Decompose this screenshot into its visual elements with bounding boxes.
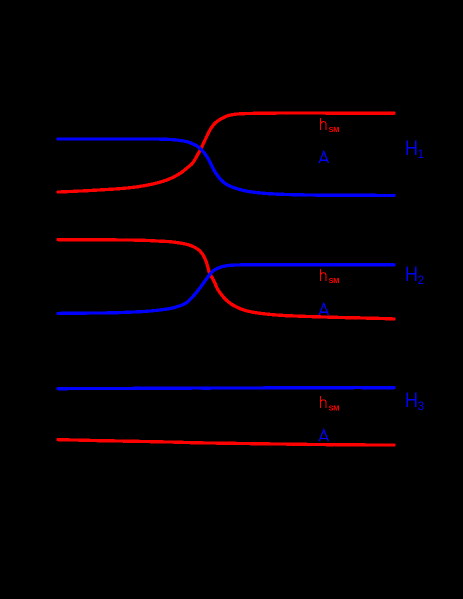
- svg-text:2: 2: [418, 275, 424, 287]
- svg-text:SM: SM: [329, 403, 340, 412]
- svg-text:1: 1: [418, 149, 424, 161]
- svg-text:3: 3: [418, 401, 424, 413]
- svg-text:SM: SM: [329, 276, 340, 285]
- svg-text:SM: SM: [329, 125, 340, 134]
